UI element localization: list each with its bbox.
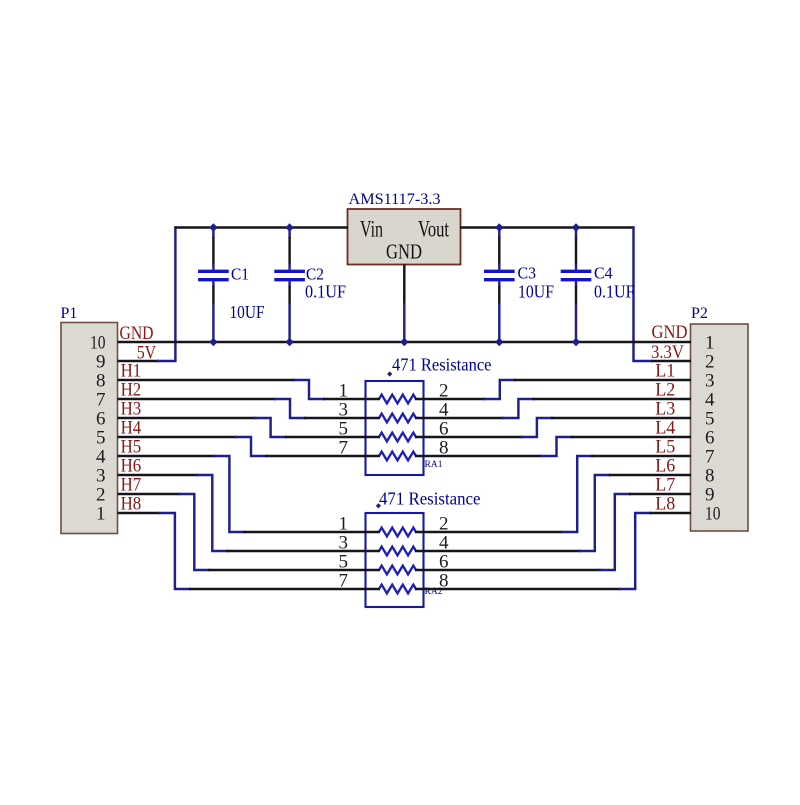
- P1 pin numbers 10..1: [90, 332, 106, 524]
- svg-text:H7: H7: [121, 475, 142, 495]
- wire U1 GND pin to GND rail: [403, 265, 405, 305]
- wire H4 step down: [236, 437, 266, 456]
- resistor array RA1 (471 Resistance): [366, 381, 424, 475]
- wire into RA1 pin 3: [304, 417, 380, 419]
- wire Vin rail: [174, 226, 348, 228]
- wire L5 rise to P2: [562, 456, 592, 532]
- svg-text:H1: H1: [121, 361, 142, 381]
- junction dot top of C3: [495, 223, 503, 231]
- wire into RA2 pin 5: [208, 569, 380, 571]
- RA2 pin numbers 2,4,6,8: [439, 514, 449, 592]
- junction dot U1 GND: [400, 338, 408, 346]
- wire L3 into P2: [551, 417, 691, 419]
- wire L4 step up: [542, 437, 572, 456]
- svg-text:0.1UF: 0.1UF: [305, 281, 346, 301]
- junction dot bottom of C2: [285, 338, 293, 346]
- wire into RA1 pin 7: [265, 455, 380, 457]
- wire L1 step up: [485, 380, 515, 399]
- svg-text:7: 7: [96, 389, 106, 410]
- svg-text:GND: GND: [386, 240, 422, 264]
- svg-text:RA1: RA1: [425, 460, 443, 470]
- wire L7 into P2: [629, 493, 691, 495]
- svg-text:3: 3: [705, 370, 715, 391]
- svg-text:1: 1: [705, 332, 715, 353]
- svg-text:H3: H3: [121, 399, 142, 419]
- svg-text:L4: L4: [655, 418, 675, 438]
- wire L2 into P2: [532, 398, 691, 400]
- svg-text:8: 8: [96, 370, 106, 391]
- wire RA2 pin 2 out: [415, 531, 563, 533]
- wire into RA2 pin 1: [243, 531, 380, 533]
- capacitor C2: [274, 228, 305, 343]
- svg-text:L3: L3: [655, 399, 675, 419]
- svg-text:471 Resistance: 471 Resistance: [379, 489, 481, 509]
- svg-text:L6: L6: [655, 456, 675, 476]
- svg-text:C1: C1: [231, 265, 249, 284]
- part dot RA1: [387, 371, 392, 376]
- svg-text:H6: H6: [121, 456, 142, 476]
- wire H3 step down: [256, 418, 286, 437]
- svg-text:L2: L2: [655, 380, 675, 400]
- svg-text:P1: P1: [61, 305, 78, 322]
- wire RA1 pin 2 out: [415, 398, 486, 400]
- wire into RA2 pin 7: [189, 588, 380, 590]
- svg-text:Vin: Vin: [360, 217, 383, 242]
- svg-text:C3: C3: [518, 264, 537, 283]
- junction dot bottom of C4: [572, 338, 580, 346]
- svg-text:GND: GND: [120, 324, 154, 344]
- svg-text:3: 3: [96, 465, 106, 486]
- svg-text:L1: L1: [655, 361, 675, 381]
- wire L6 into P2: [609, 474, 691, 476]
- svg-text:C4: C4: [594, 264, 613, 283]
- P2 pin numbers 1..10: [705, 332, 721, 524]
- RA2 pin numbers 1,3,5,7: [339, 514, 349, 592]
- svg-text:GND: GND: [652, 323, 688, 343]
- resistor RA2 element 2: [379, 547, 416, 556]
- wire 5V riser to Vin rail: [158, 228, 175, 362]
- resistor RA1 element 1: [379, 395, 416, 404]
- resistor RA1 element 4: [379, 452, 416, 461]
- capacitor C3: [484, 228, 515, 343]
- wire H6 from P1: [118, 474, 199, 476]
- wire H1 from P1: [118, 379, 296, 381]
- wire H4 from P1: [118, 436, 238, 438]
- svg-text:10UF: 10UF: [230, 302, 265, 322]
- wire RA1 pin 6 out: [415, 436, 523, 438]
- wire L8 into P2: [649, 512, 691, 514]
- wire RA1 pin 8 out: [415, 455, 543, 457]
- svg-text:6: 6: [96, 408, 106, 429]
- svg-text:4: 4: [96, 446, 106, 467]
- wire H7 drop to RA2: [179, 494, 209, 570]
- svg-text:4: 4: [705, 389, 715, 410]
- svg-text:5: 5: [705, 408, 715, 429]
- resistor RA1 element 3: [379, 433, 416, 442]
- RA1 pin numbers 1,3,5,7: [339, 381, 349, 459]
- svg-text:2: 2: [705, 351, 715, 372]
- junction dot top of C1: [209, 223, 217, 231]
- wire L4 into P2: [571, 436, 692, 438]
- svg-text:0.1UF: 0.1UF: [594, 282, 635, 302]
- wire H3 from P1: [118, 417, 257, 419]
- RA1 pin numbers 2,4,6,8: [439, 381, 449, 459]
- junction dot bottom of C1: [209, 338, 217, 346]
- svg-text:10: 10: [705, 503, 721, 524]
- wire H8 from P1: [118, 512, 161, 514]
- svg-text:471 Resistance: 471 Resistance: [392, 354, 492, 374]
- wire 5V from P1 pin9: [118, 360, 160, 362]
- svg-text:9: 9: [705, 484, 715, 505]
- connector P1: [61, 323, 118, 534]
- connector P2: [691, 324, 749, 531]
- wire 3.3V riser: [634, 228, 653, 362]
- resistor RA2 element 1: [379, 528, 416, 537]
- junction dot top of C4: [572, 223, 580, 231]
- junction dot bottom of C3: [495, 338, 503, 346]
- wire L6 rise to P2: [580, 475, 610, 551]
- wire L2 step up: [503, 399, 533, 418]
- svg-text:5: 5: [96, 427, 106, 448]
- wire RA1 pin 4 out: [415, 417, 504, 419]
- wire U1 GND lower (navy): [403, 303, 405, 342]
- svg-text:6: 6: [705, 427, 715, 448]
- svg-text:2: 2: [96, 484, 106, 505]
- wire into RA1 pin 1: [323, 398, 380, 400]
- junction dot top of C2: [285, 223, 293, 231]
- wire RA2 pin 8 out: [415, 588, 621, 590]
- svg-text:L5: L5: [655, 437, 675, 457]
- capacitor C1: [198, 228, 229, 343]
- wire L3 step up: [522, 418, 552, 437]
- svg-text:AMS1117-3.3: AMS1117-3.3: [349, 191, 441, 208]
- resistor RA1 element 2: [379, 414, 416, 423]
- part dot RA2: [376, 503, 381, 508]
- wire H5 from P1: [118, 455, 216, 457]
- wire into RA1 pin 5: [285, 436, 380, 438]
- wire H5 drop to RA2: [214, 456, 244, 532]
- svg-text:P2: P2: [691, 305, 708, 322]
- wire into RA2 pin 3: [226, 550, 380, 552]
- svg-text:8: 8: [705, 465, 715, 486]
- resistor array RA2 (471 Resistance): [366, 513, 424, 607]
- wire H8 drop to RA2: [160, 513, 190, 589]
- wire L8 rise to P2: [620, 513, 650, 589]
- wire RA2 pin 4 out: [415, 550, 581, 552]
- svg-text:7: 7: [705, 446, 715, 467]
- svg-text:10UF: 10UF: [518, 282, 554, 302]
- capacitor C4: [561, 228, 592, 343]
- wire L5 into P2: [591, 455, 691, 457]
- svg-text:L8: L8: [655, 494, 675, 514]
- svg-text:H5: H5: [121, 437, 142, 457]
- wire RA2 pin 6 out: [415, 569, 601, 571]
- svg-text:10: 10: [90, 332, 106, 353]
- wire L7 rise to P2: [600, 494, 630, 570]
- svg-text:H8: H8: [121, 494, 142, 514]
- wire H1 step down: [294, 380, 324, 399]
- wire Vout rail: [460, 226, 635, 228]
- svg-text:9: 9: [96, 351, 106, 372]
- svg-text:Vout: Vout: [418, 217, 449, 242]
- svg-text:H4: H4: [121, 418, 142, 438]
- wire L1 into P2: [514, 379, 691, 381]
- voltage regulator U1 AMS1117-3.3: [348, 209, 461, 265]
- wire GND rail: [118, 341, 692, 343]
- wire H7 from P1: [118, 493, 181, 495]
- resistor RA2 element 3: [379, 566, 416, 575]
- svg-text:H2: H2: [121, 380, 142, 400]
- svg-text:1: 1: [96, 503, 106, 524]
- svg-text:L7: L7: [655, 475, 675, 495]
- svg-text:3.3V: 3.3V: [651, 343, 685, 363]
- wire 3.3V into P2 pin2: [651, 360, 691, 362]
- wire H2 from P1: [118, 398, 277, 400]
- wire H6 drop to RA2: [197, 475, 227, 551]
- resistor RA2 element 4: [379, 585, 416, 594]
- wire H2 step down: [275, 399, 305, 418]
